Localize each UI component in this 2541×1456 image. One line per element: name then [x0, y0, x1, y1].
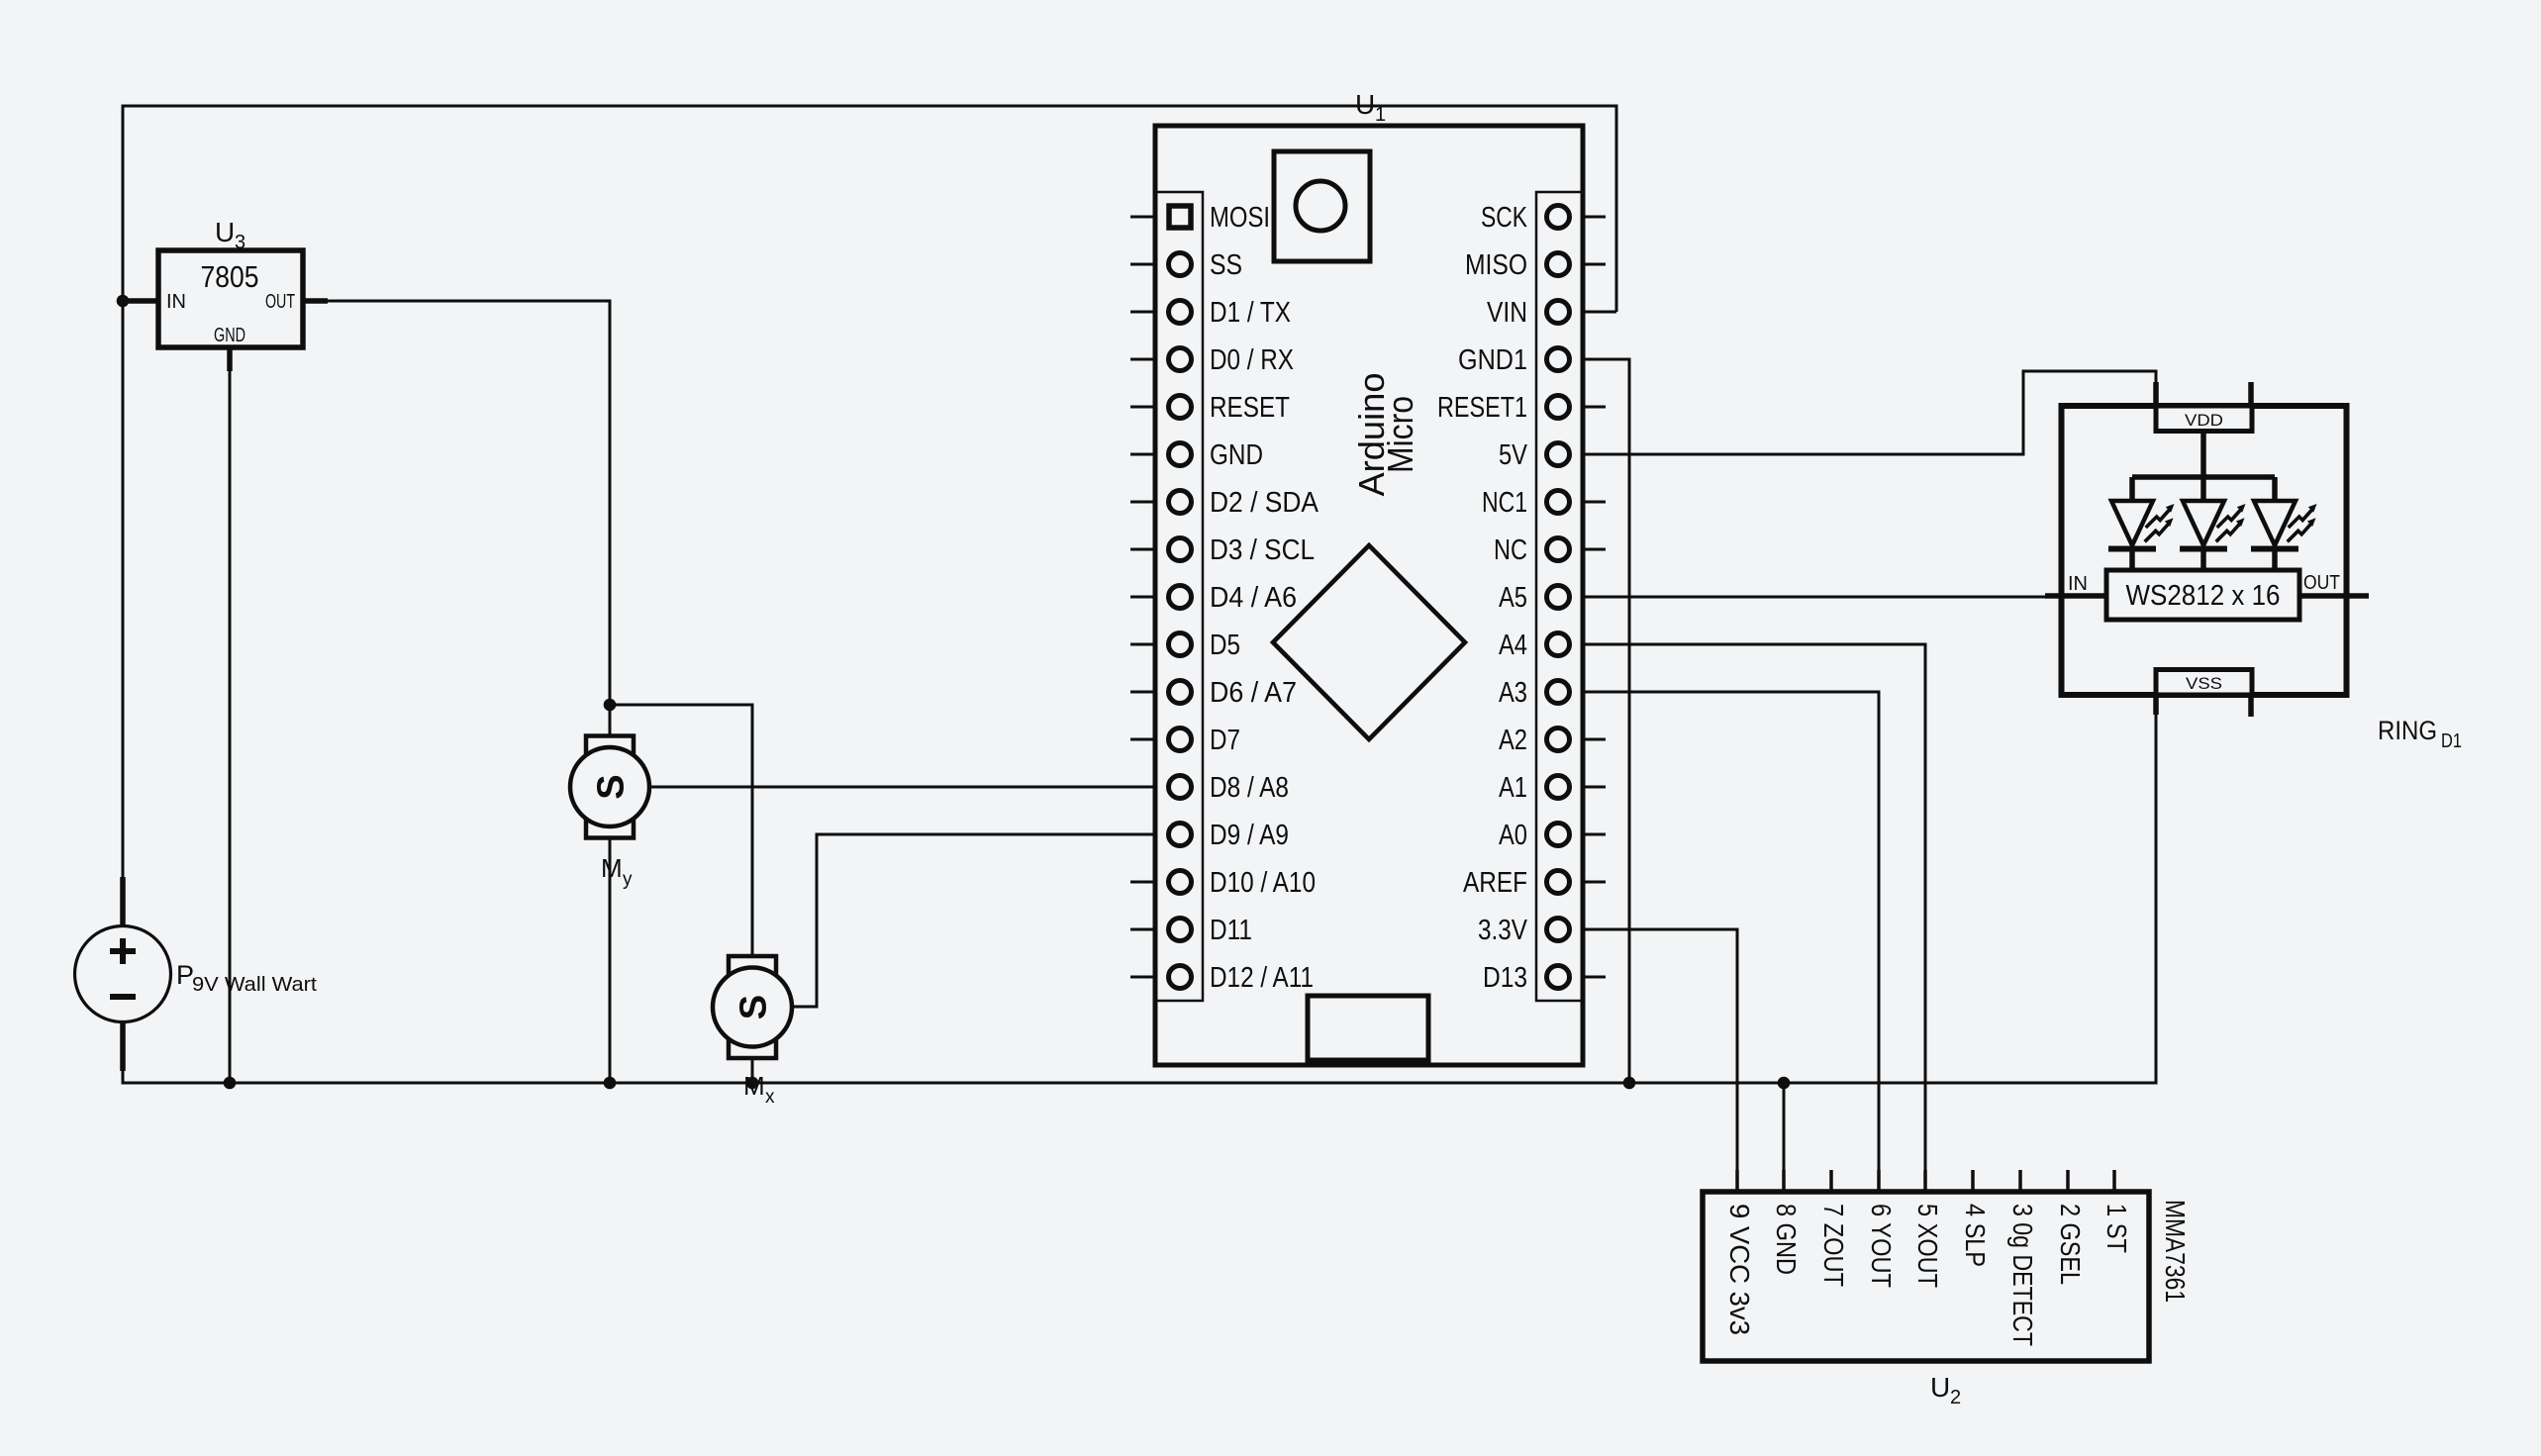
- wire: ground bottom rail: [123, 715, 2156, 1083]
- svg-text:3: 3: [235, 232, 245, 253]
- U1 left pin D0 / RX: [1130, 344, 1294, 376]
- U1 left pin D4 / A6: [1130, 582, 1297, 614]
- svg-text:MISO: MISO: [1465, 249, 1527, 281]
- U1 left pin D10 / A10: [1130, 867, 1316, 899]
- U1 left pin SS: [1130, 249, 1242, 281]
- U1 USB connector circle: [1296, 181, 1345, 231]
- svg-text:D4 / A6: D4 / A6: [1210, 582, 1297, 614]
- svg-text:D10 / A10: D10 / A10: [1210, 867, 1316, 899]
- wire: U2 pin 8 GND to ground rail: [1783, 1083, 1786, 1192]
- svg-text:NC1: NC1: [1482, 487, 1527, 519]
- U1 bottom tab: [1308, 996, 1428, 1060]
- U1 USB connector box: [1274, 151, 1370, 261]
- U1 left pin RESET: [1130, 392, 1290, 424]
- U1 right pin NC: [1494, 534, 1606, 566]
- svg-text:5V: 5V: [1499, 439, 1528, 471]
- U1 right pin A2: [1499, 725, 1606, 756]
- svg-text:5 XOUT: 5 XOUT: [1912, 1204, 1943, 1288]
- svg-text:D7: D7: [1210, 725, 1240, 756]
- svg-text:U: U: [1930, 1372, 1950, 1403]
- svg-text:U: U: [215, 217, 235, 247]
- svg-text:9V Wall Wart: 9V Wall Wart: [192, 974, 317, 996]
- U2 pin 1 ST: [2101, 1170, 2132, 1253]
- svg-text:GND: GND: [1210, 439, 1263, 471]
- svg-text:GND1: GND1: [1458, 344, 1527, 376]
- U1 right pin AREF: [1463, 867, 1606, 899]
- U1 left pin strip: [1156, 192, 1203, 1001]
- U1 right pin RESET1: [1437, 392, 1606, 424]
- svg-text:D9 / A9: D9 / A9: [1210, 820, 1289, 851]
- svg-text:1 ST: 1 ST: [2101, 1204, 2132, 1253]
- node: junction P+ / U3 IN at (124,304): [117, 295, 130, 308]
- microcontroller U1 (Arduino Micro) body: [1155, 126, 1583, 1065]
- svg-text:A2: A2: [1499, 725, 1527, 756]
- U1 right pin strip: [1536, 192, 1583, 1001]
- wire: D8/A8 to My motor: [649, 786, 1155, 789]
- svg-text:1: 1: [1375, 104, 1386, 126]
- U1 right pin A5: [1499, 582, 1606, 614]
- RING_D1 VSS pin stub: [2153, 695, 2159, 715]
- RING_D1 VDD bus to LEDs: [2200, 431, 2206, 477]
- wire: 9V net top rail from P+ / U3 IN up and across to VIN: [123, 106, 1616, 877]
- U2 pin 9 VCC 3v3: [1724, 1170, 1755, 1335]
- svg-text:6 YOUT: 6 YOUT: [1866, 1204, 1897, 1288]
- svg-text:2 GSEL: 2 GSEL: [2055, 1204, 2086, 1285]
- svg-text:RESET1: RESET1: [1437, 392, 1527, 424]
- svg-text:D0 / RX: D0 / RX: [1210, 344, 1294, 376]
- U1 left pin D5: [1130, 630, 1240, 661]
- svg-text:D12 / A11: D12 / A11: [1210, 962, 1314, 994]
- U1 left pin D7: [1130, 725, 1240, 756]
- svg-text:OUT: OUT: [265, 291, 295, 313]
- U1 right pin NC1: [1482, 487, 1606, 519]
- node: junction GND1 on rail: [1623, 1077, 1636, 1090]
- U1 left pin D2 / SDA: [1130, 487, 1319, 519]
- U1 right pin VIN: [1487, 297, 1606, 329]
- wire: junction to My motor top: [609, 705, 612, 738]
- wire: A4 down to U2 pin 5 XOUT: [1583, 644, 1925, 1192]
- U1 right pin A3: [1499, 677, 1606, 709]
- node: junction My on rail: [604, 1077, 617, 1090]
- svg-text:U: U: [1355, 89, 1375, 120]
- power source P (9V wall wart): [75, 877, 171, 1071]
- svg-text:7 ZOUT: 7 ZOUT: [1818, 1204, 1849, 1287]
- node: junction Mx on rail: [746, 1077, 759, 1090]
- servo motor Mx: [713, 956, 792, 1058]
- wire: 5V pin to ring VDD: [1583, 371, 2156, 454]
- svg-text:AREF: AREF: [1463, 867, 1527, 899]
- U1 left pin GND: [1130, 439, 1263, 471]
- svg-text:D1: D1: [2441, 730, 2462, 752]
- RING_D1 OUT pin stub: [2299, 593, 2369, 599]
- U2 pin 7 ZOUT: [1818, 1170, 1849, 1287]
- U1 left pin D9 / A9: [1130, 820, 1289, 851]
- svg-text:VSS: VSS: [2186, 674, 2222, 693]
- svg-text:RING: RING: [2378, 716, 2437, 745]
- wire: branch to Mx motor top: [610, 705, 752, 958]
- voltage regulator U3 (7805): [125, 250, 328, 371]
- svg-text:MOSI: MOSI: [1210, 202, 1270, 234]
- svg-text:OUT: OUT: [2303, 572, 2340, 594]
- wire: GND1 pin to ground rail: [1583, 359, 1629, 1083]
- svg-text:D2 / SDA: D2 / SDA: [1210, 487, 1319, 519]
- svg-text:WS2812 x 16: WS2812 x 16: [2126, 580, 2281, 612]
- svg-text:A3: A3: [1499, 677, 1527, 709]
- svg-text:RESET: RESET: [1210, 392, 1290, 424]
- accelerometer U2 (MMA7361) box: [1703, 1192, 2149, 1361]
- wire: A3 down to U2 pin 6 YOUT: [1583, 692, 1879, 1192]
- svg-text:7805: 7805: [201, 259, 259, 294]
- U1 left pin D12 / A11: [1130, 962, 1314, 994]
- svg-text:VIN: VIN: [1487, 297, 1527, 329]
- svg-text:VDD: VDD: [2185, 411, 2223, 430]
- LED (RING_D1) at x=2298: [2251, 477, 2317, 570]
- U1 left pin D8 / A8: [1130, 772, 1289, 804]
- U2 pin 6 YOUT: [1866, 1170, 1897, 1288]
- U1 right pin MISO: [1465, 249, 1606, 281]
- svg-text:IN: IN: [2068, 573, 2088, 595]
- svg-text:SS: SS: [1210, 249, 1242, 281]
- wire: 5V servo net from U3 OUT down to servo junction: [328, 301, 610, 705]
- svg-text:9 VCC 3v3: 9 VCC 3v3: [1724, 1204, 1755, 1335]
- svg-text:MMA7361: MMA7361: [2160, 1200, 2191, 1303]
- wire: My motor bottom to ground rail: [609, 837, 612, 1083]
- wire: D9/A9 to Mx motor: [792, 834, 1155, 1007]
- U1 right pin D13: [1483, 962, 1606, 994]
- wire: A5 to ring IN: [1583, 596, 2049, 599]
- U1 right pin SCK: [1481, 202, 1606, 234]
- RING_D1 VDD2 pin stub (unconnected): [2248, 382, 2254, 406]
- svg-text:D5: D5: [1210, 630, 1240, 661]
- svg-text:Micro: Micro: [1380, 396, 1420, 473]
- LED ring RING_D1 outer box: [2062, 406, 2347, 695]
- RING_D1 VSS2 pin stub (unconnected): [2248, 695, 2254, 717]
- U2 pin 3 0g DETECT: [2007, 1170, 2038, 1346]
- U1 right pin A1: [1499, 772, 1606, 804]
- RING_D1 IN pin stub: [2045, 593, 2106, 599]
- svg-text:A1: A1: [1499, 772, 1527, 804]
- svg-text:SCK: SCK: [1481, 202, 1528, 234]
- svg-text:GND: GND: [214, 325, 245, 346]
- RING_D1 VDD pin stub: [2153, 382, 2159, 406]
- U1 right pin A4: [1499, 630, 1606, 661]
- svg-text:A5: A5: [1499, 582, 1527, 614]
- U1 left pin D6 / A7: [1130, 677, 1297, 709]
- svg-text:2: 2: [1950, 1387, 1961, 1408]
- svg-text:D13: D13: [1483, 962, 1527, 994]
- svg-text:D3 / SCL: D3 / SCL: [1210, 534, 1315, 566]
- svg-text:D8 / A8: D8 / A8: [1210, 772, 1289, 804]
- U1 left pin D1 / TX: [1130, 297, 1291, 329]
- RING_D1 VSS terminal box: [2156, 670, 2252, 696]
- svg-text:M: M: [601, 853, 623, 883]
- svg-text:y: y: [623, 869, 633, 890]
- svg-text:A4: A4: [1499, 630, 1527, 661]
- RING_D1 WS2812 x 16 box: [2106, 570, 2299, 620]
- svg-text:8 GND: 8 GND: [1771, 1204, 1802, 1275]
- svg-text:M: M: [743, 1071, 765, 1101]
- U1 diamond logo: [1273, 545, 1465, 739]
- LED (RING_D1) at x=2226: [2180, 477, 2246, 570]
- node: junction U2 GND on rail: [1778, 1077, 1791, 1090]
- wire: Mx motor bottom to ground rail: [751, 1058, 754, 1083]
- wire: U3 GND down to ground rail: [229, 370, 232, 1083]
- U1 left pin D3 / SCL: [1130, 534, 1315, 566]
- svg-text:D1 / TX: D1 / TX: [1210, 297, 1291, 329]
- LED (RING_D1) at x=2154: [2108, 477, 2175, 570]
- U2 pin 5 XOUT: [1912, 1170, 1943, 1288]
- svg-text:3.3V: 3.3V: [1478, 915, 1528, 946]
- svg-text:3 0g DETECT: 3 0g DETECT: [2007, 1204, 2038, 1346]
- svg-text:IN: IN: [166, 291, 186, 313]
- U1 right pin A0: [1499, 820, 1606, 851]
- svg-text:A0: A0: [1499, 820, 1527, 851]
- svg-text:D6 / A7: D6 / A7: [1210, 677, 1297, 709]
- U2 pin 8 GND: [1771, 1170, 1802, 1275]
- servo motor My: [570, 736, 649, 838]
- svg-text:S: S: [733, 995, 775, 1019]
- node: junction U3 GND on rail: [224, 1077, 237, 1090]
- node: junction servo 5V at (616,712): [604, 699, 617, 712]
- U2 pin 4 SLP: [1960, 1170, 1991, 1267]
- svg-text:NC: NC: [1494, 534, 1527, 566]
- U1 right pin 5V: [1499, 439, 1606, 471]
- svg-text:D11: D11: [1210, 915, 1252, 946]
- svg-text:x: x: [765, 1087, 775, 1108]
- U1 left pin MOSI: [1130, 202, 1270, 234]
- RING_D1 VDD terminal box: [2156, 406, 2252, 432]
- svg-text:4 SLP: 4 SLP: [1960, 1204, 1991, 1267]
- U1 right pin 3.3V: [1478, 915, 1606, 946]
- U1 right pin GND1: [1458, 344, 1606, 376]
- wire: VIN stub to top rail: [1583, 311, 1616, 314]
- U1 left pin D11: [1130, 915, 1252, 946]
- wire: 3.3V down to U2 pin 9 VCC: [1583, 929, 1737, 1192]
- svg-text:S: S: [591, 774, 633, 799]
- U2 pin 2 GSEL: [2055, 1170, 2086, 1285]
